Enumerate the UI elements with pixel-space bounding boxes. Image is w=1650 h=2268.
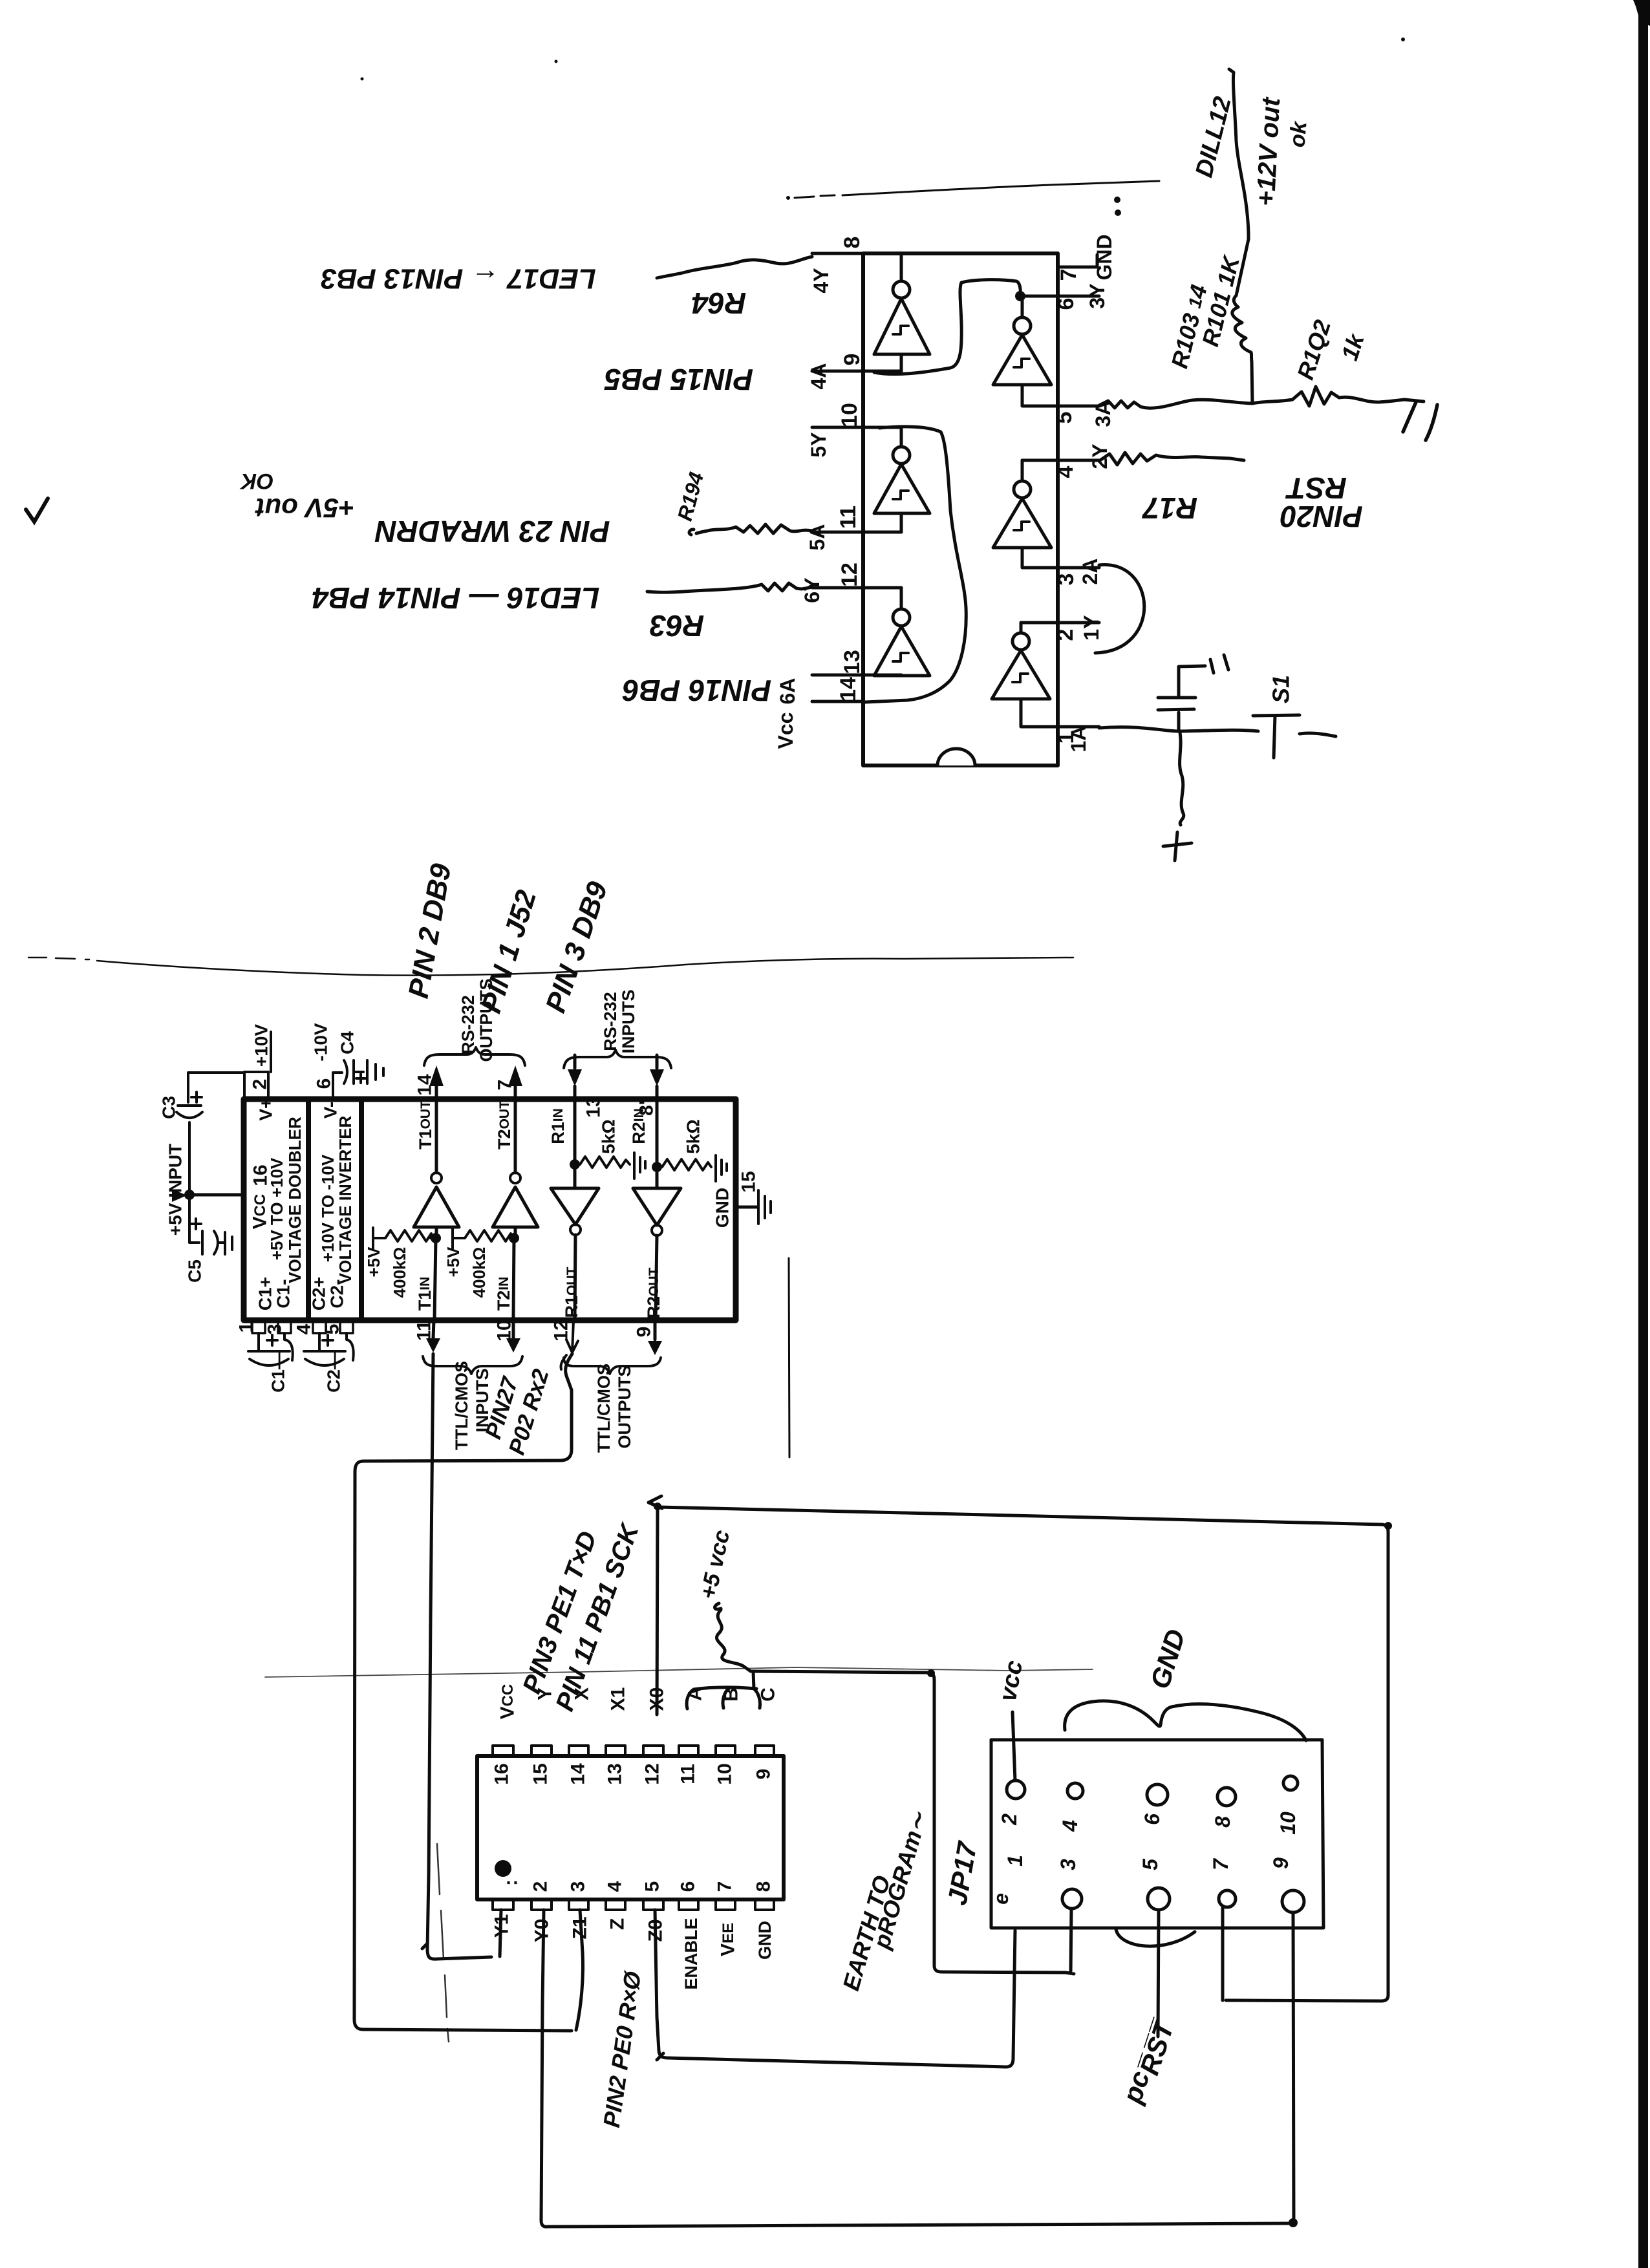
wire separator line middle left	[28, 957, 89, 959]
svg-text:5: 5	[642, 1881, 663, 1892]
svg-text:4: 4	[294, 1323, 315, 1334]
op-amp R1 receiver	[551, 1188, 599, 1225]
pin 2 square V+	[244, 1072, 268, 1097]
ground 5k R1	[634, 1153, 645, 1179]
ground 5k R2	[716, 1155, 727, 1181]
pin hole 2	[1007, 1781, 1025, 1799]
svg-text:+10V TO -10V: +10V TO -10V	[318, 1154, 337, 1262]
wire Y1 stub	[500, 1910, 501, 1956]
svg-text:11: 11	[836, 506, 861, 529]
IC U1 divider inverter	[359, 1100, 364, 1319]
wire JP17 pin7 stub	[1221, 1908, 1225, 2000]
node stray dot	[1401, 37, 1405, 41]
svg-text:5: 5	[1052, 412, 1077, 424]
wire pin13 lead 6A	[812, 674, 901, 677]
switch S1	[1253, 715, 1336, 758]
node +5V input junction	[184, 1190, 195, 1200]
svg-text:INPUTS: INPUTS	[619, 989, 638, 1053]
svg-text:3: 3	[1054, 573, 1078, 586]
svg-text:R63: R63	[649, 609, 704, 643]
wire squiggle to plus	[1180, 733, 1184, 825]
op-amp R2 receiver	[633, 1188, 681, 1225]
svg-text:C1+: C1+	[255, 1277, 275, 1311]
svg-text:10: 10	[1276, 1812, 1300, 1835]
pin hole 4	[1067, 1783, 1083, 1799]
wire pin7 lead GND	[1058, 255, 1097, 267]
node pin1 dot	[495, 1860, 511, 1877]
wire Y0 to JP17 pin9	[541, 1910, 1289, 2227]
svg-text:12: 12	[551, 1320, 572, 1341]
svg-text:1Y: 1Y	[1080, 615, 1103, 640]
svg-text:7: 7	[1209, 1857, 1232, 1870]
brace RS-232 inputs	[564, 1050, 671, 1068]
svg-text:2: 2	[530, 1881, 552, 1892]
svg-text:9: 9	[840, 354, 864, 366]
svg-text:GND: GND	[755, 1921, 775, 1960]
wire ABC common	[687, 1671, 760, 1709]
svg-text:4Y: 4Y	[809, 268, 833, 293]
pin hole 9	[1282, 1890, 1304, 1912]
wire loop 1Y to 2A	[1095, 564, 1144, 653]
svg-text:+5V: +5V	[444, 1246, 463, 1278]
svg-text:2: 2	[1053, 629, 1078, 641]
svg-text:14: 14	[836, 677, 861, 701]
svg-text:VOLTAGE DOUBLER: VOLTAGE DOUBLER	[285, 1117, 305, 1283]
pin hole 8	[1217, 1788, 1236, 1806]
svg-text:R2OUT: R2OUT	[644, 1267, 663, 1318]
svg-text:R1IN: R1IN	[548, 1108, 568, 1144]
svg-text:+5V INPUT: +5V INPUT	[166, 1144, 186, 1236]
wire correction pin9 to pin6	[874, 280, 1020, 374]
wire pin5 lead 3A	[1022, 385, 1099, 406]
svg-text:15: 15	[530, 1763, 552, 1784]
svg-text:R64: R64	[692, 286, 746, 320]
wire 1A hand extension	[1099, 727, 1258, 731]
wire R1OUT to Z1	[354, 1354, 572, 2031]
connector JP17 bump	[1116, 1929, 1195, 1946]
wire LED17 squiggle on 4Y	[657, 257, 812, 278]
svg-text:+10V: +10V	[252, 1024, 272, 1067]
wire end mark	[1403, 402, 1437, 440]
brace TTL/CMOS inputs	[423, 1356, 522, 1374]
svg-text:6: 6	[1054, 298, 1078, 310]
svg-text:12: 12	[642, 1763, 663, 1784]
capacitor C on 1A	[1158, 655, 1228, 731]
svg-text:+5V TO +10V: +5V TO +10V	[267, 1157, 286, 1260]
wire pin12 lead 6Y	[812, 586, 901, 590]
svg-text:LED16 — PIN14 PB4: LED16 — PIN14 PB4	[312, 581, 600, 615]
node dots by GND	[1114, 197, 1120, 203]
resistor +5vcc pullup	[715, 1603, 751, 1671]
svg-text:9: 9	[1269, 1857, 1292, 1869]
capacitor C1	[248, 1333, 293, 1365]
wire +5 node to JP17 pin3	[751, 1671, 1074, 1974]
op-amp T1 driver	[414, 1187, 459, 1227]
wire +10V stub	[270, 1032, 272, 1072]
resistor R194 on 5A	[689, 524, 812, 535]
pin pads top	[493, 1746, 774, 1756]
pin hole 5	[1148, 1888, 1170, 1910]
IC U2 hex schmitt inverter outline	[863, 253, 1058, 765]
svg-text:TTL/CMOS: TTL/CMOS	[452, 1361, 471, 1450]
svg-text:2A: 2A	[1078, 559, 1102, 585]
wire pin9 lead 4A	[812, 370, 901, 373]
svg-text:3Y: 3Y	[1086, 283, 1109, 308]
wire R2IN pin8	[656, 1086, 659, 1099]
wire pin4 lead 2Y	[1022, 459, 1099, 462]
wire R2OUT X0 to JP17 pin7	[650, 1503, 1388, 2001]
ground C4	[367, 1060, 383, 1084]
svg-text:C1-: C1-	[273, 1279, 294, 1308]
op-amp T2 driver	[493, 1187, 538, 1227]
svg-text:+5V: +5V	[364, 1246, 383, 1278]
svg-text:+12V out: +12V out	[1252, 96, 1286, 207]
svg-text:OK: OK	[239, 469, 273, 493]
capacitor C5	[189, 1199, 224, 1254]
connector JP17 outline	[991, 1740, 1323, 1928]
svg-text:11: 11	[678, 1764, 699, 1784]
wire R2OUT pin9	[656, 1236, 657, 1319]
svg-text::: :	[500, 1879, 522, 1886]
inverter U2F pins 9-8	[874, 253, 930, 371]
svg-text:7: 7	[714, 1881, 736, 1892]
node junction Y0 pin9	[1289, 2218, 1298, 2227]
svg-text:3: 3	[568, 1881, 589, 1892]
svg-text:2: 2	[998, 1813, 1021, 1826]
wire pin2 lead 1Y	[1021, 621, 1099, 625]
resistor R101 vertical	[1229, 69, 1252, 403]
svg-text:S1: S1	[1268, 675, 1294, 703]
pin pads 1 3 4 5	[252, 1320, 265, 1333]
capacitor C2	[304, 1333, 354, 1365]
svg-text:5kΩ: 5kΩ	[683, 1119, 703, 1154]
svg-text:RS-232: RS-232	[601, 992, 620, 1051]
wire R1OUT pin12	[575, 1235, 575, 1319]
IC U3 DIP-16 outline	[477, 1756, 784, 1899]
node checkmark	[26, 498, 48, 522]
wire T1OUT pin14	[435, 1085, 438, 1099]
svg-text:9: 9	[753, 1769, 775, 1780]
node junction corner	[927, 1669, 935, 1677]
svg-text:PIN20: PIN20	[1280, 500, 1363, 533]
wire separator pencil line lower	[265, 1667, 1093, 1677]
node junction pin6	[1015, 291, 1025, 301]
svg-text:7: 7	[495, 1080, 516, 1091]
svg-text:C1—: C1—	[268, 1351, 288, 1393]
inverter U2E pins 11-10	[874, 427, 930, 532]
ground C5	[225, 1232, 232, 1254]
svg-text:OUTPUTS: OUTPUTS	[615, 1365, 634, 1448]
svg-text:T2OUT: T2OUT	[495, 1100, 514, 1150]
wire pin8 lead 4Y	[812, 252, 863, 255]
svg-text:4: 4	[605, 1881, 626, 1892]
svg-text:e: e	[989, 1893, 1012, 1905]
svg-text:+5V out: +5V out	[255, 493, 355, 524]
svg-text:PIN16 PB6: PIN16 PB6	[623, 674, 772, 707]
svg-text:T1IN: T1IN	[415, 1277, 434, 1311]
wire pin11 lead 5A	[812, 531, 901, 534]
resistor 400k T1	[373, 1228, 431, 1248]
svg-text:400kΩ: 400kΩ	[469, 1247, 489, 1298]
wire pin6 lead 3Y	[1022, 295, 1099, 298]
wire pin14 lead Vcc	[812, 700, 863, 703]
brace RS-232 outputs	[424, 1047, 525, 1065]
svg-text:4: 4	[1058, 1820, 1082, 1832]
ground pin15	[758, 1190, 771, 1224]
wire junction to pin16	[189, 1193, 244, 1197]
svg-text:1: 1	[1003, 1855, 1027, 1867]
svg-text:TTL/CMOS: TTL/CMOS	[594, 1364, 614, 1453]
svg-text:VCC: VCC	[497, 1684, 519, 1720]
scan edge bar right	[1638, 0, 1648, 2268]
svg-text:C3: C3	[159, 1096, 179, 1119]
node arrow R2OUT	[648, 1496, 662, 1508]
svg-text:C2-: C2-	[327, 1279, 347, 1308]
resistor 5k R1	[580, 1157, 630, 1168]
svg-text:C2+: C2+	[309, 1277, 329, 1311]
svg-text:GND: GND	[1093, 234, 1116, 280]
svg-text:1: 1	[236, 1322, 257, 1333]
wire T2IN pin10	[513, 1238, 514, 1319]
capacitor C4	[344, 1060, 363, 1084]
svg-text:R2IN: R2IN	[629, 1108, 648, 1144]
svg-text:R1OUT: R1OUT	[562, 1267, 581, 1318]
node plus mark	[1163, 832, 1192, 861]
svg-text:13: 13	[840, 650, 864, 674]
wire X0 vertical	[657, 1508, 658, 1715]
resistor R100 on 3A	[1099, 400, 1252, 408]
svg-text:400kΩ: 400kΩ	[390, 1247, 409, 1298]
wire GND squiggle	[1065, 1701, 1306, 1740]
brace TTL/CMOS outputs	[564, 1358, 661, 1374]
svg-text:3: 3	[1056, 1859, 1080, 1870]
svg-text:LED17 ← PIN13 PB3: LED17 ← PIN13 PB3	[321, 263, 596, 295]
svg-text:1A: 1A	[1067, 726, 1090, 753]
resistor 5k R2	[662, 1159, 711, 1170]
svg-text:R17: R17	[1141, 491, 1197, 525]
svg-text:C5: C5	[185, 1259, 205, 1283]
inverter U2B pins 3-4	[993, 460, 1051, 548]
pin pads bottom	[493, 1899, 774, 1910]
svg-text:5Y: 5Y	[807, 432, 830, 457]
wire GND pin15	[736, 1206, 758, 1209]
svg-text:16: 16	[491, 1763, 513, 1784]
svg-text:C4: C4	[337, 1031, 358, 1054]
wire Z0 to JP17 e	[655, 1910, 1015, 2067]
svg-text:6A: 6A	[776, 678, 799, 705]
svg-text:6: 6	[678, 1881, 699, 1892]
wire T1IN pin11	[434, 1238, 436, 1319]
pin hole 10	[1283, 1776, 1298, 1790]
inverter U2D pins 13-12	[874, 588, 930, 676]
svg-text:T2IN: T2IN	[494, 1277, 513, 1311]
svg-text:GND: GND	[712, 1188, 733, 1228]
wire pin10 lead 5Y	[812, 426, 901, 429]
svg-text:6: 6	[314, 1078, 335, 1089]
svg-text:14: 14	[568, 1763, 589, 1785]
svg-text:VEE: VEE	[718, 1923, 739, 1956]
IC U2 notch	[937, 749, 975, 765]
wire pin3 lead 2A	[1022, 548, 1099, 568]
svg-text:VOLTAGE INVERTER: VOLTAGE INVERTER	[336, 1116, 355, 1285]
svg-text:Z: Z	[607, 1918, 628, 1930]
IC U1 divider doubler	[306, 1100, 311, 1319]
svg-text:6: 6	[1141, 1813, 1164, 1825]
svg-text:13: 13	[605, 1763, 626, 1784]
svg-text:PIN 23 WRADRN: PIN 23 WRADRN	[375, 515, 610, 548]
svg-text:10: 10	[714, 1763, 736, 1784]
svg-text:-10V: -10V	[311, 1023, 331, 1061]
wire pin5 PC RST	[1158, 1910, 1159, 2037]
svg-text:RS-232: RS-232	[458, 995, 478, 1054]
svg-text:5: 5	[322, 1324, 343, 1335]
resistor R17 on 2Y	[1099, 453, 1244, 465]
svg-text:6Y: 6Y	[800, 577, 824, 603]
wire separator dash-dot line top right	[786, 196, 790, 200]
pin hole 7	[1219, 1890, 1236, 1907]
svg-text:T1OUT: T1OUT	[416, 1100, 435, 1150]
wire pin1 lead 1A	[1021, 699, 1099, 727]
svg-text:V+: V+	[256, 1098, 276, 1120]
wire pencil dashed vertical	[437, 1844, 449, 2042]
svg-text:2: 2	[250, 1079, 271, 1090]
IC U1 MAX232 outline	[244, 1099, 736, 1320]
svg-text:12: 12	[837, 562, 862, 587]
svg-text:4: 4	[1053, 465, 1078, 478]
svg-text:PIN15 PB5: PIN15 PB5	[604, 363, 754, 396]
svg-text:3: 3	[264, 1324, 286, 1335]
wire pin6 stub	[333, 1073, 342, 1097]
node junction 3A	[1252, 387, 1424, 406]
svg-text:ok: ok	[1285, 120, 1311, 149]
resistor R63 squiggle on 6Y	[647, 583, 812, 592]
inverter U2A pins 1-2	[992, 623, 1050, 699]
svg-text:10: 10	[494, 1320, 515, 1341]
resistor 400k T2	[453, 1228, 511, 1248]
svg-text:5A: 5A	[806, 524, 829, 551]
svg-text:8: 8	[753, 1881, 775, 1892]
svg-text:8: 8	[1211, 1816, 1234, 1828]
svg-text:X1: X1	[608, 1687, 629, 1711]
capacitor C3	[177, 1106, 202, 1195]
wire T2OUT pin7	[514, 1085, 517, 1099]
svg-text:11: 11	[414, 1320, 435, 1341]
svg-text:8: 8	[840, 237, 864, 249]
wire pencil vertical segment	[789, 1258, 789, 1457]
svg-text:4A: 4A	[807, 363, 830, 390]
inverter U2C pins 5-6	[993, 296, 1051, 385]
pin hole 6	[1147, 1784, 1168, 1805]
svg-text:ENABLE: ENABLE	[681, 1918, 701, 1989]
svg-text:15: 15	[738, 1171, 760, 1192]
svg-text:10: 10	[837, 403, 862, 427]
wire JP17 pin9 vertical	[1293, 1912, 1294, 2223]
svg-text:13: 13	[583, 1096, 605, 1117]
wire VCC to pin2	[1012, 1712, 1015, 1781]
wire correction pin10 to Vcc	[865, 427, 966, 702]
svg-text:C2—: C2—	[324, 1351, 344, 1393]
svg-text:9: 9	[634, 1327, 655, 1338]
wire R1IN pin13	[573, 1086, 577, 1099]
pin hole 3	[1062, 1889, 1082, 1909]
svg-text:Vcc: Vcc	[774, 712, 797, 749]
svg-text:7: 7	[1056, 269, 1081, 281]
svg-text:5: 5	[1139, 1858, 1162, 1870]
node junction X0	[1384, 1522, 1392, 1530]
wire T1IN to Y1	[427, 1354, 491, 1959]
svg-text:14: 14	[414, 1074, 436, 1096]
wire pin2 to C3	[188, 1073, 244, 1102]
wire Z1 diagonal	[576, 1910, 583, 2030]
svg-text:5kΩ: 5kΩ	[599, 1119, 619, 1154]
